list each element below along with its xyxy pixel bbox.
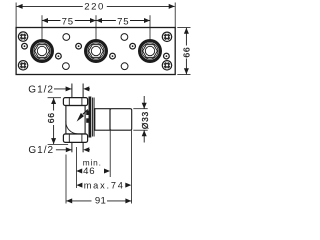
top view plate body: [16, 28, 175, 75]
dimension 66 right arrow top: [184, 28, 189, 34]
valve body 3 hex nut: [143, 45, 158, 58]
svg-text:max.74: max.74: [84, 180, 125, 190]
flange plate line a: [92, 98, 94, 137]
extension line sleeve divider: [109, 130, 111, 177]
flange clip middle top: [86, 111, 88, 116]
svg-text:G1/2: G1/2: [28, 145, 54, 156]
mounting screw bottom-right: [162, 61, 171, 70]
svg-text:Ø33: Ø33: [140, 111, 150, 129]
trim screw valve3 upper-left: [130, 43, 136, 49]
dim 91 line: [66, 200, 91, 202]
dimension 75 left arrow a: [42, 18, 48, 23]
valve body 3 bore: [145, 46, 154, 55]
mounting screw top-right: [162, 32, 171, 41]
body internal arc: [66, 122, 78, 134]
dimension 66 right extension bottom: [177, 74, 190, 76]
centerline of body: [75, 147, 77, 188]
trim screw valve2 upper-left: [76, 43, 82, 49]
dim O33 line bottom tail: [143, 130, 145, 142]
svg-text:66: 66: [46, 112, 56, 123]
plate hole top-right: [121, 34, 128, 41]
flange bar: [89, 97, 92, 138]
dim 46 arrow left: [76, 169, 82, 174]
side view top pipe stub: [71, 84, 73, 98]
side view valve body column: [66, 106, 85, 134]
G1/2 top leader line: [54, 88, 71, 90]
dim 66 left arrow bottom: [51, 138, 56, 144]
dim O33 extension bottom: [133, 129, 147, 131]
dim 91 arrow right: [125, 198, 131, 203]
dim O33 line top tail: [143, 96, 145, 109]
valve body 1 bore: [37, 46, 46, 55]
mounting screw bottom-left: [18, 61, 27, 70]
valve body 1 hex nut: [35, 45, 50, 58]
svg-text:220: 220: [84, 2, 105, 13]
dimension 220 line right part: [107, 5, 175, 7]
valve body 3 inner circle: [142, 43, 158, 59]
G1/2 bottom arrow right: [66, 147, 72, 152]
protective sleeve segment 1: [95, 109, 110, 131]
dimension 66 right extension top: [177, 27, 190, 29]
trim screw valve1 lower-right: [56, 53, 62, 59]
dim max.74 arrow left: [76, 183, 82, 188]
dimension 75 left line: [42, 20, 61, 22]
G1/2 bottom leader line: [56, 149, 72, 151]
extension line sleeve end: [131, 130, 133, 203]
dim 66 left line: [53, 98, 55, 111]
valve 3 centerline: [149, 15, 151, 39]
svg-text:75: 75: [62, 17, 74, 28]
dim max.74 arrow right: [125, 183, 131, 188]
dimension 75 left arrow b: [90, 18, 96, 23]
valve body 2 bore: [91, 46, 100, 55]
valve body 2 outer ring: [84, 39, 108, 63]
bottom hex nut flats: [68, 134, 70, 142]
dim 46 arrow right: [104, 169, 110, 174]
dim O33 extension top: [133, 108, 147, 110]
valve body 1 outer ring: [30, 39, 54, 63]
svg-text:66: 66: [182, 47, 192, 58]
flange plate line b: [93, 98, 95, 137]
side view top hex nut: [63, 98, 87, 106]
dimension 75 right line: [96, 20, 116, 22]
dimension 75 right arrow b: [144, 18, 150, 23]
svg-text:91: 91: [95, 196, 106, 207]
trim screw valve1 upper-left: [22, 43, 28, 49]
dimension 220 line left part: [17, 5, 83, 7]
dimension 220 extension line left: [15, 3, 17, 28]
dimension 220 extension line right: [174, 3, 176, 28]
dim 91 arrow left: [66, 198, 72, 203]
flow arrow: [77, 113, 84, 122]
G1/2 top counter arrow: [83, 86, 89, 91]
dim 66 left extension top: [48, 97, 61, 99]
G1/2 top arrow right: [66, 86, 72, 91]
G1/2 bottom counter arrow: [83, 147, 89, 152]
dimension 75 right arrow a: [96, 18, 102, 23]
protective sleeve segment 2: [110, 109, 132, 131]
svg-text:G1/2: G1/2: [28, 85, 54, 96]
dimension 66 right line top: [185, 28, 187, 46]
trim screw valve3 lower-right: [164, 53, 170, 59]
valve body 2 hex nut: [89, 45, 104, 58]
plate hole bottom-right: [121, 63, 128, 70]
side view bottom pipe stub: [71, 142, 73, 152]
trim screw valve2 lower-right: [110, 53, 116, 59]
valve body 3 outer ring: [138, 39, 162, 63]
dimension 220 arrow left: [17, 4, 23, 9]
top hex nut flats: [68, 98, 70, 105]
svg-text:46: 46: [83, 166, 95, 177]
mounting screw top-left: [18, 32, 27, 41]
plate hole top-left: [63, 34, 70, 41]
dim O33 arrow top: [142, 103, 147, 109]
dim 66 left extension bottom: [48, 143, 69, 145]
extension line body left: [65, 155, 67, 204]
dimension 66 right line bottom: [185, 59, 187, 75]
plate hole bottom-left: [63, 63, 70, 70]
dim O33 arrow bottom: [142, 130, 147, 136]
dimension 220 arrow right: [169, 4, 175, 9]
valve 1 centerline: [41, 15, 43, 39]
valve body 1 inner circle: [34, 43, 50, 59]
dimension 66 right arrow bottom: [184, 68, 189, 74]
dim 66 left arrow top: [51, 98, 56, 104]
svg-text:75: 75: [117, 17, 129, 28]
valve body 2 inner circle: [88, 43, 104, 59]
flange clip middle bottom: [86, 118, 88, 123]
valve 2 centerline: [95, 15, 97, 39]
side view bottom hex nut: [63, 134, 87, 142]
